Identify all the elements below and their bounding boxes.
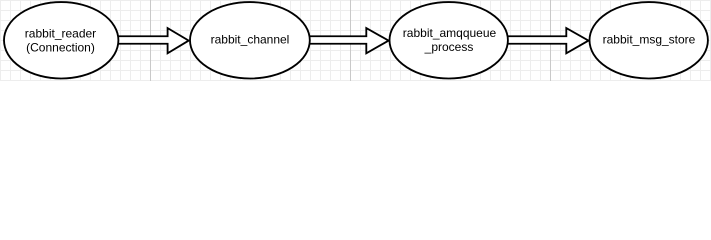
ellipse node rabbit_msg_store bbox=[590, 2, 708, 78]
svg-text:_process: _process bbox=[424, 40, 474, 54]
ellipse node rabbit_reader bbox=[4, 2, 118, 78]
ellipse node rabbit_amqqueue_process bbox=[390, 2, 508, 78]
major grid line x=150 bbox=[150, 0, 151, 81]
arrow 1 (rabbit_reader -> rabbit_channel) bbox=[117, 28, 189, 53]
svg-text:rabbit_amqqueue: rabbit_amqqueue bbox=[403, 26, 497, 40]
grid background bbox=[0, 0, 711, 81]
ellipse node rabbit_channel bbox=[190, 2, 310, 78]
arrow 3 (rabbit_amqqueue_process -> rabbit_msg_store) bbox=[507, 28, 589, 53]
arrow 2 (rabbit_channel -> rabbit_amqqueue_process) bbox=[309, 28, 389, 53]
svg-text:rabbit_msg_store: rabbit_msg_store bbox=[603, 33, 696, 47]
svg-text:rabbit_reader: rabbit_reader bbox=[25, 27, 96, 41]
svg-text:rabbit_channel: rabbit_channel bbox=[211, 33, 290, 47]
svg-text:(Connection): (Connection) bbox=[26, 41, 95, 55]
major grid line x=350 bbox=[350, 0, 351, 81]
major grid line x=550 bbox=[550, 0, 551, 81]
